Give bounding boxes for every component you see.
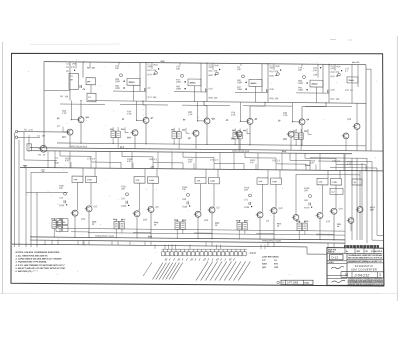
svg-text:3. TRANSISTORS TYPE 2N404A: 3. TRANSISTORS TYPE 2N404A — [16, 261, 47, 264]
svg-text:2.2K: 2.2K — [282, 115, 288, 117]
svg-text:5. SELECT AND ADJ. AT FACTORY: 5. SELECT AND ADJ. AT FACTORY SETUP AT T… — [16, 268, 67, 270]
svg-text:MIL-STD: MIL-STD — [352, 62, 360, 64]
svg-text:P1/J1: P1/J1 — [250, 253, 257, 255]
svg-text:2N404: 2N404 — [190, 81, 197, 84]
svg-text:2N?: 2N? — [269, 68, 275, 70]
svg-text:47K: 47K — [250, 161, 254, 164]
svg-text:47K: 47K — [188, 161, 192, 164]
svg-text:R1: R1 — [87, 67, 89, 69]
svg-text:2.2K: 2.2K — [230, 114, 236, 116]
svg-text:10K: 10K — [59, 188, 63, 190]
svg-text:2N?: 2N? — [330, 68, 336, 70]
svg-text:R110: R110 — [113, 219, 117, 221]
svg-text:2.2K: 2.2K — [126, 113, 132, 115]
svg-text:R49: R49 — [232, 129, 235, 132]
svg-text:47K: 47K — [65, 159, 69, 162]
svg-text:34: 34 — [345, 273, 349, 277]
svg-text:NOTES: UNLESS OTHERWISE SPECIF: NOTES: UNLESS OTHERWISE SPECIFIED: — [16, 252, 61, 254]
svg-text:ECN: ECN — [305, 283, 310, 285]
svg-text:10K: 10K — [182, 189, 186, 191]
svg-text:R63: R63 — [110, 129, 113, 131]
svg-text:R176: R176 — [304, 207, 310, 209]
svg-text:Q21: Q21 — [212, 118, 216, 120]
svg-text:R154: R154 — [59, 204, 65, 207]
svg-text:47K: 47K — [127, 160, 131, 163]
svg-text:100K: 100K — [298, 90, 304, 92]
svg-text:R158: R158 — [296, 221, 300, 223]
svg-text:WDF: WDF — [357, 251, 360, 253]
svg-text:SCHEMATIC: SCHEMATIC — [355, 264, 374, 268]
svg-text:1-239: 1-239 — [332, 182, 337, 184]
svg-text:2N4: 2N4 — [87, 80, 90, 83]
svg-text:PRECISION BUS: PRECISION BUS — [232, 151, 250, 153]
svg-text:100K: 100K — [115, 88, 121, 90]
svg-text:LAST REF DESIG: LAST REF DESIG — [262, 257, 279, 259]
svg-text:2. CAPACITANCE VALUES ARE IN p: 2. CAPACITANCE VALUES ARE IN pF, CHOSEN — [15, 259, 62, 261]
svg-text:ADA CONVERTER: ADA CONVERTER — [350, 268, 377, 272]
svg-text:PRECISION BUS: PRECISION BUS — [70, 146, 88, 148]
svg-text:2.2K: 2.2K — [187, 114, 193, 116]
svg-text:C.C.: C.C. — [66, 63, 71, 65]
svg-text:R173: R173 — [121, 219, 125, 221]
svg-text:THE GENERAL RADIO COMPANY WEST: THE GENERAL RADIO COMPANY WEST CONCORD M… — [348, 254, 382, 257]
svg-text:2N404: 2N404 — [251, 82, 258, 85]
svg-text:R89: R89 — [304, 131, 307, 133]
svg-text:100K: 100K — [176, 88, 182, 90]
svg-text:4.7K: 4.7K — [347, 163, 352, 166]
svg-text:2.7K: 2.7K — [28, 129, 34, 131]
svg-text:C1: C1 — [71, 76, 73, 78]
svg-text:FREQUENCY BUS: FREQUENCY BUS — [95, 236, 114, 238]
svg-text:FREQUENCY BUS: FREQUENCY BUS — [262, 240, 281, 242]
svg-text:3: 3 — [379, 273, 381, 277]
svg-text:2N404: 2N404 — [349, 79, 354, 82]
svg-text:P3: P3 — [63, 222, 65, 224]
svg-text:R83: R83 — [171, 129, 174, 131]
svg-text:47K: 47K — [310, 162, 314, 165]
svg-text:25: 25 — [71, 79, 73, 81]
svg-text:220K: 220K — [114, 81, 121, 83]
svg-text:R109: R109 — [236, 220, 240, 222]
svg-text:10K: 10K — [65, 96, 69, 98]
svg-text:100K: 100K — [237, 89, 243, 91]
svg-text:R189: R189 — [121, 206, 127, 208]
svg-text:10K: 10K — [244, 190, 248, 192]
svg-text:R81: R81 — [243, 130, 246, 132]
svg-text:10K: 10K — [313, 70, 317, 72]
svg-text:2N?: 2N? — [71, 63, 77, 65]
svg-text:47K: 47K — [71, 66, 75, 69]
svg-text:10K: 10K — [214, 98, 218, 100]
svg-text:R136: R136 — [182, 206, 188, 208]
svg-text:10K: 10K — [275, 98, 279, 100]
svg-text:2N?: 2N? — [147, 66, 153, 68]
svg-text:C-7: C-7 — [332, 192, 335, 194]
svg-text:2N404: 2N404 — [129, 81, 136, 84]
svg-text:10K: 10K — [304, 190, 308, 192]
svg-text:P2: P2 — [57, 222, 59, 224]
svg-text:R159: R159 — [51, 218, 55, 220]
svg-text:1477-1968: 1477-1968 — [287, 283, 299, 285]
svg-text:D-13: D-13 — [332, 256, 339, 260]
svg-text:220K: 220K — [297, 83, 304, 85]
svg-text:47K: 47K — [91, 66, 96, 69]
svg-text:Q21: Q21 — [62, 137, 66, 139]
svg-text:1. ALL RESISTORS ARE 1/4W 5%: 1. ALL RESISTORS ARE 1/4W 5% — [16, 254, 48, 257]
svg-text:220K: 220K — [175, 82, 182, 84]
svg-text:R18: R18 — [121, 129, 124, 131]
svg-text:1-239: 1-239 — [272, 181, 277, 183]
svg-text:-15V: -15V — [150, 167, 155, 169]
svg-text:10K: 10K — [121, 188, 125, 190]
svg-text:220K: 220K — [236, 82, 243, 84]
svg-text:1-239: 1-239 — [149, 180, 154, 182]
svg-text:2-04-212: 2-04-212 — [354, 274, 370, 278]
svg-text:WEST CONCORD, MASSACHUSETTS, U: WEST CONCORD, MASSACHUSETTS, U.S.A. 0178… — [348, 257, 382, 260]
svg-text:Q11: Q11 — [86, 117, 90, 119]
svg-text:2.2K: 2.2K — [61, 113, 67, 115]
svg-text:R150: R150 — [305, 165, 311, 167]
svg-text:R108: R108 — [304, 221, 308, 223]
svg-text:R153: R153 — [244, 207, 250, 209]
svg-text:1-239: 1-239 — [210, 181, 215, 183]
svg-text:10K: 10K — [336, 99, 340, 101]
svg-text:10K: 10K — [153, 97, 157, 99]
svg-text:1-2: 1-2 — [88, 97, 91, 99]
svg-text:4. R.F.O. ARE TRIMMED TO MATCH: 4. R.F.O. ARE TRIMMED TO MATCHED SETS OF… — [15, 264, 66, 267]
svg-text:6. SEE DWG (70-) * *: 6. SEE DWG (70-) * * * * — [16, 271, 38, 273]
svg-text:2N?: 2N? — [208, 67, 214, 69]
svg-text:R84: R84 — [182, 129, 185, 132]
svg-text:2N404: 2N404 — [312, 83, 319, 86]
svg-text:1-239: 1-239 — [87, 179, 92, 181]
